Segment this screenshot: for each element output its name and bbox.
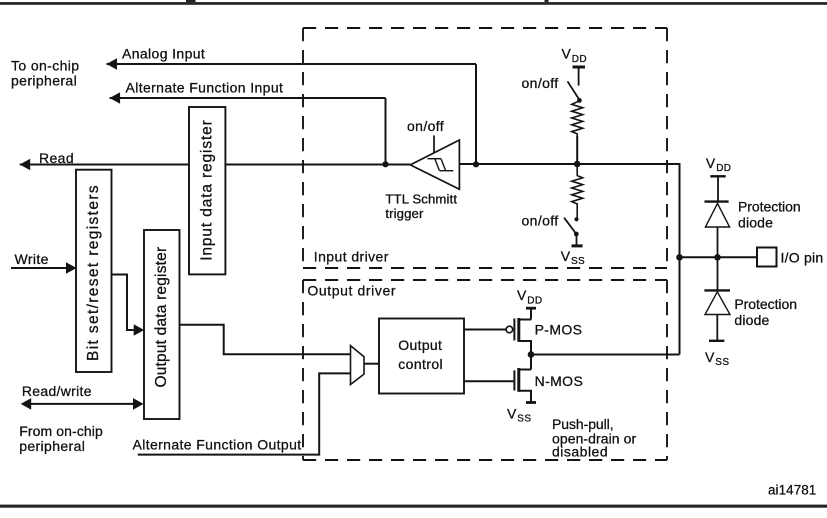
node: AFI junction on read line bbox=[382, 161, 388, 167]
register: Bit set/reset registers box bbox=[76, 170, 112, 372]
svg-text:Write: Write bbox=[15, 251, 49, 267]
svg-text:V: V bbox=[517, 287, 527, 303]
power: VDD (protection) bbox=[706, 155, 732, 174]
input driver dashed box bbox=[303, 28, 667, 268]
pad: I/O pin square bbox=[757, 248, 777, 267]
svg-text:Output: Output bbox=[398, 337, 442, 353]
svg-text:Bit set/reset registers: Bit set/reset registers bbox=[85, 185, 102, 361]
wire: I/O pin line bbox=[680, 256, 758, 258]
bottom frame border bbox=[0, 505, 827, 508]
diode D2: protection diode bottom bbox=[704, 289, 730, 291]
wire: bit set/reset to output data register bbox=[112, 275, 134, 331]
svg-text:V: V bbox=[561, 248, 571, 264]
wire: Read line (Schmitt output to left arrow) bbox=[20, 164, 411, 166]
svg-text:Read/write: Read/write bbox=[22, 383, 92, 399]
svg-text:DD: DD bbox=[527, 295, 542, 306]
arrowhead: Analog Input bbox=[107, 58, 118, 70]
register: Input data register box bbox=[189, 107, 225, 274]
transistor Q1: P-MOS bbox=[517, 318, 520, 342]
wire: diode D1 to I/O line bbox=[717, 227, 719, 257]
node: analog junction on main line bbox=[473, 161, 479, 167]
svg-text:N-MOS: N-MOS bbox=[535, 373, 584, 389]
svg-text:Output driver: Output driver bbox=[307, 282, 396, 298]
svg-text:Output data register: Output data register bbox=[153, 247, 170, 388]
wire: Alternate Function Input vertical drop bbox=[385, 98, 387, 164]
wire: output node to I/O vertical bbox=[531, 354, 680, 356]
diode D1: protection diode top bbox=[705, 200, 729, 202]
svg-text:Alternate Function Input: Alternate Function Input bbox=[126, 79, 284, 95]
wire: N-MOS source to VSS bbox=[519, 391, 531, 403]
block: Output control box bbox=[379, 319, 464, 394]
wire: schmitt on/off enable stub bbox=[433, 135, 435, 153]
svg-text:Protection: Protection bbox=[734, 296, 797, 312]
svg-text:V: V bbox=[706, 155, 716, 171]
power: VDD bar (protection) bbox=[710, 175, 725, 177]
svg-text:SS: SS bbox=[571, 256, 585, 267]
power: VSS rail bar (pull-down) bbox=[572, 244, 583, 247]
svg-text:on/off: on/off bbox=[522, 75, 559, 91]
wire: resistor to main line bbox=[576, 136, 578, 163]
arrowhead: Alternate Function Input bbox=[110, 92, 121, 104]
wire: VDD lead bbox=[578, 67, 580, 86]
svg-text:Input data register: Input data register bbox=[199, 120, 216, 261]
wire: P-MOS drain down to node bbox=[519, 341, 531, 355]
svg-text:TTL Schmitt: TTL Schmitt bbox=[385, 192, 457, 207]
arrowhead: Read bbox=[20, 159, 31, 171]
node: I/O junction left bbox=[676, 254, 683, 261]
svg-text:DD: DD bbox=[572, 54, 587, 65]
svg-text:SS: SS bbox=[517, 414, 531, 425]
wire: main I/O horizontal line from Schmitt input to right bbox=[459, 163, 679, 165]
svg-text:V: V bbox=[705, 349, 715, 365]
svg-text:peripheral: peripheral bbox=[19, 438, 85, 454]
top frame border bbox=[0, 0, 827, 5]
wire: Analog Input horizontal bbox=[107, 63, 477, 65]
svg-text:To on-chip: To on-chip bbox=[11, 57, 79, 73]
svg-text:SS: SS bbox=[715, 357, 729, 368]
wire: switch to VSS bar bbox=[576, 234, 578, 246]
resistor R2: pull-down bbox=[572, 164, 583, 218]
resistor R1: pull-up bbox=[572, 101, 583, 136]
schmitt hysteresis symbol bbox=[428, 159, 454, 171]
transistor Q2: N-MOS bbox=[519, 355, 531, 370]
svg-text:V: V bbox=[507, 405, 517, 421]
wire: Analog Input vertical drop bbox=[475, 64, 477, 164]
svg-text:diode: diode bbox=[734, 312, 769, 328]
wire: output data register to mux bbox=[180, 325, 351, 355]
register: Output data register box bbox=[144, 230, 180, 419]
svg-text:trigger: trigger bbox=[385, 206, 424, 221]
wire: VDD to diode D1 bbox=[717, 176, 719, 200]
node: protection diode junction bbox=[714, 254, 721, 261]
mux: output select trapezoid bbox=[351, 346, 365, 385]
svg-text:on/off: on/off bbox=[522, 213, 559, 229]
wire: Alternate Function Output bbox=[138, 373, 351, 454]
wire: mux to output control bbox=[364, 363, 379, 365]
switch SW1 blade (on/off pull-up) bbox=[568, 81, 580, 100]
svg-text:From on-chip: From on-chip bbox=[19, 423, 103, 439]
output driver dashed box bbox=[303, 280, 667, 460]
svg-text:Read: Read bbox=[39, 150, 74, 166]
svg-text:P-MOS: P-MOS bbox=[535, 321, 583, 337]
switch SW2 (on/off pull-down) bbox=[574, 217, 578, 221]
svg-text:on/off: on/off bbox=[407, 118, 444, 134]
wire: output control to N-MOS gate bbox=[464, 380, 513, 382]
schmitt trigger U1: triangle bbox=[410, 140, 459, 189]
power: VDD (output stage) bbox=[517, 287, 543, 306]
svg-text:I/O pin: I/O pin bbox=[781, 249, 824, 265]
svg-text:Analog Input: Analog Input bbox=[122, 46, 205, 62]
wire: Write arrow into bit set/reset bbox=[11, 267, 66, 269]
svg-text:control: control bbox=[398, 356, 443, 372]
svg-text:Input driver: Input driver bbox=[314, 248, 389, 264]
wire: VDD to P-MOS source bbox=[519, 308, 531, 319]
wire: main vertical line down to I/O node and MOS output bbox=[679, 163, 681, 355]
svg-text:Alternate Function Output: Alternate Function Output bbox=[133, 436, 302, 452]
wire: Alternate Function Input horizontal bbox=[110, 97, 386, 99]
wire: output control to P-MOS gate bbox=[464, 329, 506, 331]
svg-text:Protection: Protection bbox=[738, 198, 801, 214]
node: pull junction on main line bbox=[574, 161, 581, 168]
svg-text:DD: DD bbox=[716, 163, 731, 174]
power: VDD (pull-up) bbox=[562, 46, 588, 65]
wire: I/O line to diode D2 bbox=[717, 257, 719, 290]
svg-text:peripheral: peripheral bbox=[11, 72, 77, 88]
wire: Read/write double arrow bbox=[30, 403, 134, 405]
wire: diode D2 to VSS bbox=[716, 315, 718, 341]
svg-text:diode: diode bbox=[738, 214, 773, 230]
svg-text:ai14781: ai14781 bbox=[768, 482, 816, 497]
power: VDD rail bar bbox=[573, 66, 586, 69]
power: VSS bar (output stage) bbox=[526, 401, 536, 404]
node: push-pull output bbox=[528, 351, 535, 358]
svg-text:V: V bbox=[562, 46, 572, 62]
power: VDD bar (output stage) bbox=[526, 307, 536, 310]
svg-text:disabled: disabled bbox=[552, 444, 608, 460]
power: VSS bar (protection) bbox=[709, 340, 724, 342]
